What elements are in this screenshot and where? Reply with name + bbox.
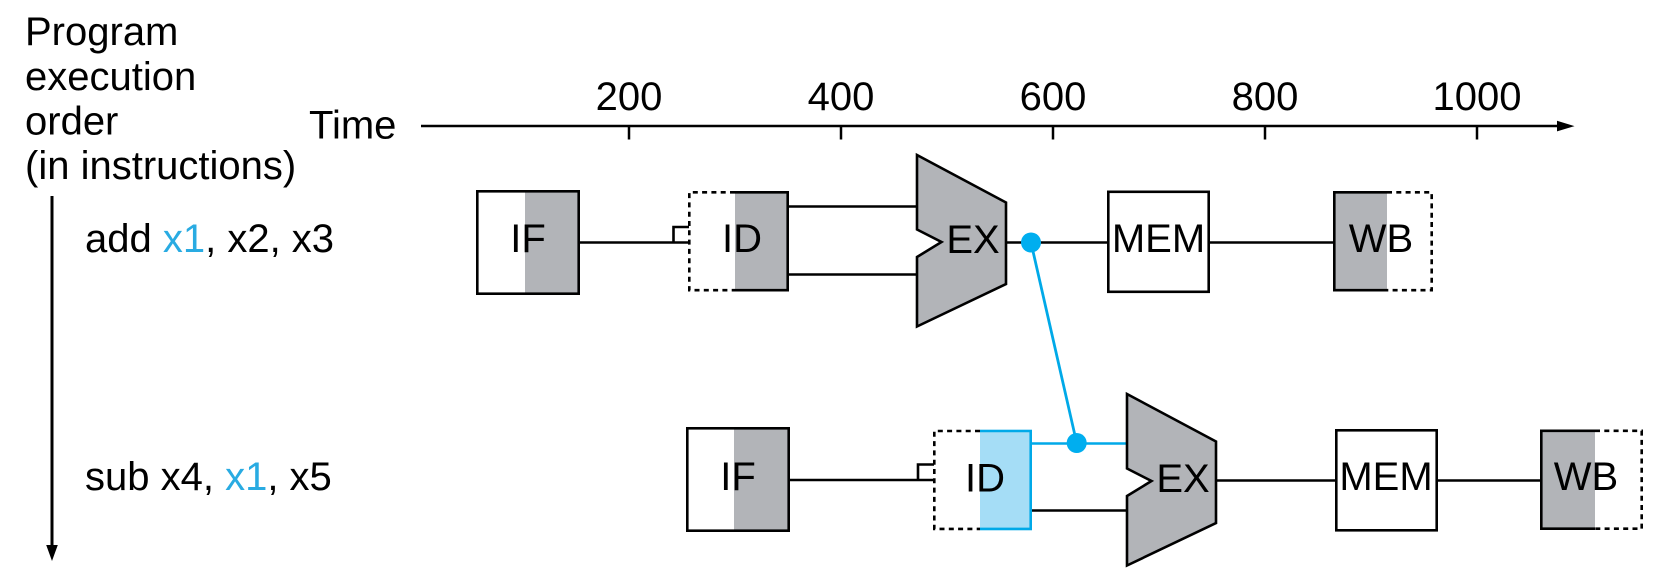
svg-text:MEM: MEM bbox=[1112, 217, 1205, 261]
svg-text:sub x4, x1, x5: sub x4, x1, x5 bbox=[85, 455, 332, 499]
svg-text:800: 800 bbox=[1232, 75, 1299, 119]
svg-text:Time: Time bbox=[309, 104, 396, 148]
svg-text:WB: WB bbox=[1554, 455, 1618, 499]
svg-text:EX: EX bbox=[946, 218, 999, 262]
svg-text:600: 600 bbox=[1020, 75, 1087, 119]
svg-text:400: 400 bbox=[808, 75, 875, 119]
svg-text:1000: 1000 bbox=[1433, 75, 1522, 119]
svg-text:Program: Program bbox=[25, 10, 178, 54]
svg-text:ID: ID bbox=[722, 217, 762, 261]
svg-text:200: 200 bbox=[596, 75, 663, 119]
svg-text:WB: WB bbox=[1349, 217, 1413, 261]
svg-text:(in instructions): (in instructions) bbox=[25, 144, 296, 188]
svg-text:order: order bbox=[25, 100, 118, 144]
svg-text:execution: execution bbox=[25, 55, 196, 99]
svg-text:MEM: MEM bbox=[1339, 455, 1432, 499]
svg-text:ID: ID bbox=[965, 457, 1005, 501]
svg-text:IF: IF bbox=[720, 455, 756, 499]
svg-text:add x1, x2, x3: add x1, x2, x3 bbox=[85, 217, 334, 261]
svg-text:EX: EX bbox=[1156, 457, 1209, 501]
svg-text:IF: IF bbox=[510, 217, 546, 261]
